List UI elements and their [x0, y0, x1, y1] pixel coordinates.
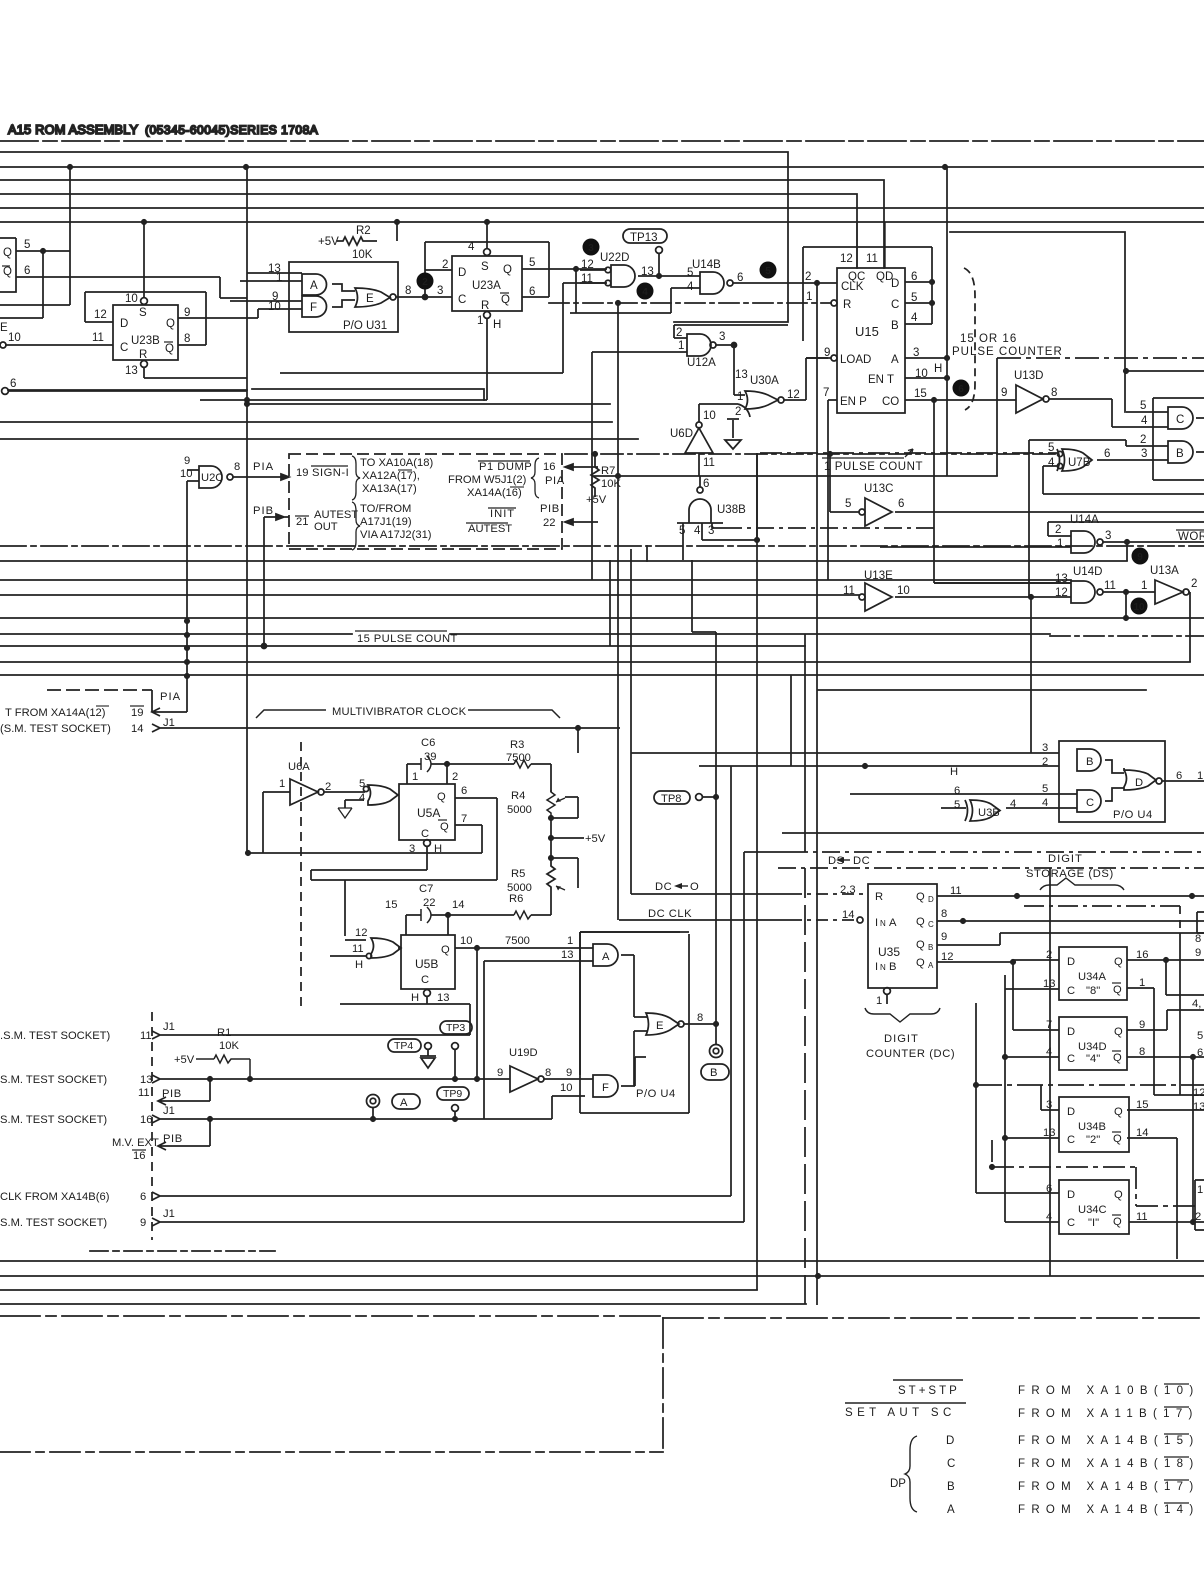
svg-text:5: 5	[529, 257, 535, 269]
svg-text:MULTIVIBRATOR CLOCK: MULTIVIBRATOR CLOCK	[332, 706, 467, 718]
svg-text:12: 12	[840, 253, 853, 265]
svg-text:D: D	[120, 318, 128, 330]
svg-text:P/O U31: P/O U31	[343, 320, 387, 332]
svg-text:13: 13	[561, 949, 573, 961]
svg-text:U14B: U14B	[692, 259, 721, 271]
svg-text:15 OR 16: 15 OR 16	[960, 333, 1017, 345]
svg-text:6: 6	[1104, 448, 1110, 460]
svg-text:TP3: TP3	[446, 1022, 465, 1034]
svg-text:13: 13	[1193, 1101, 1204, 1113]
svg-text:+5V: +5V	[586, 494, 607, 506]
svg-text:7500: 7500	[505, 935, 530, 947]
svg-text:4: 4	[1048, 457, 1055, 469]
svg-text:A: A	[891, 354, 899, 366]
svg-text:2: 2	[1042, 756, 1048, 768]
svg-text:22: 22	[423, 897, 435, 909]
svg-text:6: 6	[958, 384, 964, 395]
svg-text:C: C	[421, 974, 429, 986]
svg-text:C: C	[928, 920, 934, 929]
svg-text:DIGIT: DIGIT	[884, 1033, 919, 1045]
svg-text:12: 12	[355, 927, 367, 939]
svg-text:9: 9	[941, 931, 947, 943]
svg-text:COUNTER (DC): COUNTER (DC)	[866, 1048, 955, 1060]
svg-text:U23B: U23B	[131, 335, 160, 347]
svg-text:9: 9	[1001, 387, 1007, 399]
svg-text:12: 12	[1055, 587, 1068, 599]
svg-text:Q: Q	[916, 957, 925, 969]
svg-text:1: 1	[1141, 580, 1147, 592]
svg-text:TP13: TP13	[630, 232, 658, 244]
svg-text:7: 7	[1046, 1019, 1052, 1031]
svg-text:B: B	[947, 1481, 955, 1493]
svg-text:N: N	[880, 919, 886, 928]
svg-text:"4": "4"	[1086, 1053, 1100, 1065]
svg-text:EN T: EN T	[868, 374, 894, 386]
svg-text:Q: Q	[501, 294, 510, 306]
svg-text:Q: Q	[440, 821, 449, 833]
svg-text:U34A: U34A	[1078, 971, 1107, 983]
svg-text:19: 19	[296, 467, 308, 479]
svg-text:11: 11	[866, 253, 878, 265]
svg-text:4: 4	[1046, 1211, 1052, 1223]
svg-text:10K: 10K	[352, 249, 373, 261]
svg-text:21: 21	[296, 516, 308, 528]
svg-text:SET AUT SC: SET AUT SC	[845, 1407, 956, 1419]
svg-text:8: 8	[941, 908, 947, 920]
svg-text:U3B: U3B	[978, 807, 1000, 819]
svg-text:XA13A(17): XA13A(17)	[362, 483, 417, 495]
svg-text:U22D: U22D	[600, 252, 629, 264]
svg-text:7: 7	[823, 387, 829, 399]
svg-text:1: 1	[412, 771, 418, 783]
svg-text:TP8: TP8	[661, 793, 682, 805]
svg-text:Q: Q	[1114, 1026, 1123, 1038]
svg-text:2: 2	[442, 259, 448, 271]
svg-text:A: A	[400, 1097, 408, 1109]
svg-text:F: F	[310, 302, 317, 314]
svg-text:11: 11	[92, 332, 104, 344]
svg-text:J1: J1	[163, 717, 175, 729]
svg-text:Q: Q	[916, 916, 925, 928]
svg-text:3: 3	[1042, 742, 1048, 754]
svg-text:R: R	[843, 299, 851, 311]
svg-text:U34D: U34D	[1078, 1041, 1107, 1053]
svg-text:A: A	[310, 280, 318, 292]
svg-text:"8": "8"	[1086, 985, 1100, 997]
svg-text:H: H	[950, 766, 958, 778]
svg-text:U35: U35	[878, 945, 900, 959]
svg-text:13: 13	[1043, 978, 1055, 990]
svg-text:C7: C7	[419, 883, 433, 895]
svg-text:4: 4	[694, 525, 701, 537]
svg-text:6: 6	[461, 785, 467, 797]
svg-text:3: 3	[1046, 1099, 1052, 1111]
svg-text:1: 1	[737, 391, 743, 403]
svg-text:2: 2	[452, 771, 458, 783]
svg-text:U14A: U14A	[1070, 514, 1099, 526]
svg-text:1: 1	[876, 995, 882, 1007]
svg-text:B: B	[889, 961, 896, 973]
svg-text:1: 1	[678, 340, 684, 352]
svg-text:4: 4	[1042, 797, 1048, 809]
svg-text:16: 16	[140, 1114, 152, 1126]
svg-text:10: 10	[1133, 602, 1145, 613]
svg-text:5: 5	[765, 266, 771, 277]
svg-text:10: 10	[560, 1082, 572, 1094]
svg-text:P/O U4: P/O U4	[1113, 809, 1153, 821]
svg-text:12: 12	[94, 309, 107, 321]
svg-text:1: 1	[279, 778, 285, 790]
svg-text:8: 8	[184, 333, 190, 345]
svg-text:B: B	[1086, 756, 1093, 768]
svg-text:F: F	[602, 1082, 609, 1094]
svg-text:TP4: TP4	[394, 1040, 413, 1052]
svg-text:DP: DP	[890, 1478, 906, 1490]
svg-text:5: 5	[679, 525, 685, 537]
svg-text:Q: Q	[165, 343, 174, 355]
svg-text:(S.M. TEST SOCKET): (S.M. TEST SOCKET)	[0, 723, 111, 735]
svg-text:OUT: OUT	[314, 521, 338, 533]
svg-text:INIT: INIT	[490, 508, 515, 520]
svg-text:Q: Q	[441, 944, 450, 956]
svg-text:9: 9	[140, 1217, 146, 1229]
svg-text:2: 2	[1191, 578, 1197, 590]
svg-text:13: 13	[1055, 573, 1068, 585]
svg-text:D: D	[1135, 777, 1143, 789]
svg-text:U6D: U6D	[670, 428, 693, 440]
svg-text:WORD: WORD	[1178, 531, 1204, 543]
svg-text:A: A	[947, 1504, 955, 1516]
svg-text:10: 10	[268, 301, 281, 313]
svg-text:Q: Q	[3, 247, 12, 259]
svg-text:C: C	[458, 294, 466, 306]
svg-text:"I": "I"	[1088, 1217, 1099, 1229]
svg-text:(05345-60045)SERIES 1708A: (05345-60045)SERIES 1708A	[145, 123, 318, 137]
svg-text:10: 10	[915, 368, 928, 380]
svg-text:7500: 7500	[506, 752, 531, 764]
svg-text:6: 6	[1197, 1047, 1203, 1059]
svg-text:C: C	[1176, 414, 1184, 426]
svg-text:3: 3	[588, 243, 594, 254]
svg-text:PULSE COUNTER: PULSE COUNTER	[952, 346, 1063, 358]
svg-text:DC: DC	[655, 881, 672, 893]
svg-text:2: 2	[1140, 434, 1146, 446]
svg-text:TO/FROM: TO/FROM	[360, 503, 411, 515]
svg-text:E: E	[656, 1020, 663, 1032]
svg-text:PIA: PIA	[545, 475, 565, 487]
svg-text:15: 15	[914, 388, 927, 400]
svg-text:11: 11	[703, 457, 715, 469]
svg-text:16: 16	[543, 461, 555, 473]
svg-text:6: 6	[703, 478, 709, 490]
svg-text:D: D	[458, 267, 466, 279]
svg-text:H: H	[934, 363, 942, 375]
svg-text:C: C	[120, 342, 128, 354]
svg-text:U34C: U34C	[1078, 1204, 1107, 1216]
svg-text:13: 13	[140, 1074, 152, 1086]
svg-text:TP9: TP9	[443, 1088, 462, 1100]
svg-text:15: 15	[1136, 1099, 1148, 1111]
svg-text:5: 5	[954, 799, 960, 811]
svg-text:6: 6	[1046, 1183, 1052, 1195]
svg-text:S: S	[481, 261, 489, 273]
svg-text:STORAGE (DS): STORAGE (DS)	[1026, 868, 1114, 880]
svg-text:D: D	[1067, 1026, 1075, 1038]
svg-text:9: 9	[497, 1067, 503, 1079]
svg-text:R4: R4	[511, 790, 525, 802]
svg-text:6: 6	[529, 286, 535, 298]
svg-text:+5V: +5V	[318, 236, 339, 248]
svg-text:C: C	[421, 828, 429, 840]
svg-text:S.M. TEST SOCKET): S.M. TEST SOCKET)	[0, 1114, 107, 1126]
svg-text:3: 3	[1105, 530, 1111, 542]
svg-text:Q: Q	[437, 791, 446, 803]
svg-text:U12A: U12A	[687, 357, 716, 369]
svg-text:B: B	[1176, 448, 1184, 460]
svg-text:A: A	[602, 951, 610, 963]
svg-text:FROM XA14B(17): FROM XA14B(17)	[1018, 1481, 1200, 1493]
svg-text:15: 15	[385, 899, 397, 911]
svg-text:14: 14	[452, 899, 464, 911]
svg-text:C: C	[1067, 1217, 1075, 1229]
svg-text:10: 10	[8, 332, 21, 344]
svg-text:10: 10	[125, 293, 138, 305]
svg-text:R6: R6	[509, 893, 523, 905]
svg-text:R1: R1	[217, 1027, 231, 1039]
svg-text:D: D	[928, 895, 934, 904]
svg-text:14: 14	[131, 723, 143, 735]
svg-text:8: 8	[697, 1012, 703, 1024]
svg-text:U13C: U13C	[864, 483, 893, 495]
svg-text:12: 12	[941, 951, 953, 963]
svg-text:C: C	[1067, 1053, 1075, 1065]
svg-text:H: H	[434, 843, 442, 855]
svg-text:U30A: U30A	[750, 375, 779, 387]
svg-text:M.V. EXT: M.V. EXT	[112, 1137, 159, 1149]
svg-text:PIB: PIB	[163, 1133, 183, 1145]
svg-text:4: 4	[1141, 415, 1148, 427]
svg-text:10: 10	[460, 935, 472, 947]
svg-text:O: O	[690, 881, 699, 893]
svg-text:DC CLK: DC CLK	[648, 908, 692, 920]
svg-text:D: D	[1067, 956, 1075, 968]
svg-text:C: C	[1067, 985, 1075, 997]
svg-text:A: A	[889, 917, 897, 929]
svg-text:E: E	[0, 322, 8, 334]
svg-text:1: 1	[1057, 538, 1063, 550]
svg-text:10K: 10K	[219, 1040, 239, 1052]
svg-text:9: 9	[184, 307, 190, 319]
svg-text:A: A	[928, 961, 934, 970]
svg-text:.S.M. TEST SOCKET): .S.M. TEST SOCKET)	[0, 1030, 111, 1042]
svg-text:ST+STP: ST+STP	[898, 1385, 960, 1397]
svg-text:6: 6	[10, 378, 16, 390]
svg-text:A15 ROM ASSEMBLY: A15 ROM ASSEMBLY	[8, 122, 139, 137]
svg-text:3: 3	[1141, 448, 1147, 460]
svg-text:SIGN-I: SIGN-I	[312, 467, 349, 479]
svg-text:11: 11	[581, 273, 593, 285]
svg-text:22: 22	[543, 517, 555, 529]
svg-text:S: S	[139, 307, 147, 319]
svg-text:16: 16	[1136, 949, 1148, 961]
svg-text:AUTEST: AUTEST	[314, 509, 358, 521]
svg-text:6: 6	[911, 271, 917, 283]
svg-text:8: 8	[1195, 933, 1201, 945]
svg-text:R: R	[139, 349, 147, 361]
svg-text:2: 2	[805, 271, 811, 283]
svg-text:PIA: PIA	[160, 691, 181, 703]
svg-text:1: 1	[1197, 770, 1203, 782]
svg-text:U6A: U6A	[288, 761, 310, 773]
svg-text:D: D	[1067, 1106, 1075, 1118]
svg-text:6: 6	[737, 272, 743, 284]
svg-text:8: 8	[405, 285, 411, 297]
svg-text:6: 6	[898, 498, 904, 510]
svg-text:8: 8	[234, 461, 240, 473]
svg-text:11: 11	[140, 1030, 152, 1042]
svg-text:P1 DUMP: P1 DUMP	[479, 461, 532, 473]
svg-text:1: 1	[1139, 977, 1145, 989]
svg-text:5: 5	[24, 239, 30, 251]
svg-text:TO XA10A(18): TO XA10A(18)	[360, 457, 433, 469]
svg-text:8: 8	[1139, 1046, 1145, 1058]
svg-text:4,: 4,	[1192, 998, 1201, 1010]
svg-text:EN P: EN P	[840, 396, 867, 408]
svg-text:14: 14	[1136, 1127, 1148, 1139]
svg-text:4: 4	[359, 792, 365, 804]
svg-text:Q: Q	[1113, 1216, 1122, 1228]
svg-text:XA14A(16): XA14A(16)	[467, 487, 522, 499]
svg-text:6: 6	[1176, 770, 1182, 782]
svg-text:+5V: +5V	[174, 1054, 195, 1066]
svg-text:B: B	[928, 943, 933, 952]
svg-text:I: I	[875, 961, 878, 973]
svg-text:C: C	[947, 1458, 955, 1470]
svg-text:9: 9	[1139, 1019, 1145, 1031]
svg-text:9: 9	[566, 1067, 572, 1079]
svg-text:5: 5	[1140, 400, 1146, 412]
svg-text:U15: U15	[855, 324, 879, 339]
svg-text:R: R	[481, 300, 489, 312]
svg-text:XA12A(17),: XA12A(17),	[362, 470, 420, 482]
svg-text:13: 13	[641, 266, 654, 278]
svg-text:R: R	[875, 891, 883, 903]
svg-text:11: 11	[1104, 580, 1116, 592]
svg-text:U34B: U34B	[1078, 1121, 1106, 1133]
svg-text:Q: Q	[166, 318, 175, 330]
svg-text:14: 14	[842, 909, 854, 921]
svg-text:Q: Q	[1113, 984, 1122, 996]
svg-text:+5V: +5V	[585, 833, 606, 845]
svg-text:3: 3	[719, 331, 725, 343]
svg-text:D: D	[946, 1435, 954, 1447]
svg-text:D: D	[1067, 1189, 1075, 1201]
svg-text:1: 1	[276, 272, 282, 284]
svg-text:11: 11	[138, 1087, 150, 1099]
svg-text:PIB: PIB	[253, 505, 274, 517]
svg-text:10: 10	[703, 410, 716, 422]
svg-text:H: H	[355, 959, 363, 971]
svg-text:5: 5	[911, 292, 917, 304]
svg-text:2: 2	[735, 406, 741, 418]
svg-text:12: 12	[787, 389, 800, 401]
svg-text:4: 4	[911, 312, 918, 324]
svg-text:CO: CO	[882, 396, 899, 408]
svg-text:13: 13	[437, 992, 449, 1004]
svg-text:R7: R7	[601, 465, 615, 477]
svg-text:C: C	[1067, 1134, 1075, 1146]
svg-text:FROM XA11B(17): FROM XA11B(17)	[1018, 1408, 1199, 1420]
svg-text:"2": "2"	[1086, 1134, 1100, 1146]
svg-text:J1: J1	[163, 1021, 175, 1033]
svg-text:S.M. TEST SOCKET): S.M. TEST SOCKET)	[0, 1074, 107, 1086]
svg-text:U7B: U7B	[1068, 457, 1091, 469]
svg-text:Q: Q	[503, 264, 512, 276]
svg-text:5: 5	[687, 267, 693, 279]
svg-text:C6: C6	[421, 737, 435, 749]
svg-text:5: 5	[1048, 442, 1054, 454]
svg-text:FROM XA14B(14): FROM XA14B(14)	[1018, 1504, 1200, 1516]
svg-text:R5: R5	[511, 868, 525, 880]
svg-text:6: 6	[24, 265, 30, 277]
svg-text:11: 11	[352, 943, 364, 955]
svg-text:9: 9	[184, 455, 190, 467]
svg-text:R3: R3	[510, 739, 524, 751]
svg-text:1 PULSE COUNT: 1 PULSE COUNT	[824, 461, 923, 473]
svg-text:39: 39	[424, 751, 436, 763]
svg-text:CLK: CLK	[841, 281, 864, 293]
svg-text:8: 8	[1051, 387, 1057, 399]
svg-text:5000: 5000	[507, 804, 532, 816]
svg-text:15 PULSE COUNT: 15 PULSE COUNT	[357, 633, 458, 645]
svg-text:J1: J1	[163, 1208, 175, 1220]
svg-text:3: 3	[708, 525, 714, 537]
svg-text:FROM XA10B(10): FROM XA10B(10)	[1018, 1385, 1200, 1397]
svg-text:U38B: U38B	[717, 504, 746, 516]
svg-text:2: 2	[325, 781, 331, 793]
svg-text:19: 19	[131, 707, 143, 719]
svg-text:9: 9	[1137, 552, 1143, 563]
svg-text:AUTEST: AUTEST	[468, 523, 512, 535]
svg-text:2: 2	[1055, 524, 1061, 536]
svg-text:4: 4	[1010, 798, 1016, 810]
svg-text:LOAD: LOAD	[840, 354, 871, 366]
svg-text:12: 12	[581, 259, 594, 271]
svg-text:3: 3	[913, 347, 919, 359]
svg-text:PIB: PIB	[162, 1088, 182, 1100]
svg-text:2: 2	[1195, 1211, 1201, 1223]
svg-text:U2C: U2C	[201, 472, 223, 484]
svg-text:U13E: U13E	[864, 570, 893, 582]
svg-text:B: B	[710, 1067, 717, 1079]
svg-text:PIA: PIA	[253, 461, 274, 473]
svg-text:7: 7	[461, 813, 467, 825]
svg-text:FROM XA14B(15): FROM XA14B(15)	[1018, 1435, 1200, 1447]
svg-text:5: 5	[359, 778, 365, 790]
svg-text:E: E	[366, 293, 374, 305]
svg-text:Q: Q	[1113, 1133, 1122, 1145]
svg-text:11: 11	[843, 585, 855, 597]
svg-text:N: N	[880, 963, 886, 972]
svg-text:1: 1	[1197, 1184, 1203, 1196]
svg-text:Q: Q	[916, 891, 925, 903]
svg-text:13: 13	[735, 369, 748, 381]
svg-text:Q: Q	[1114, 1189, 1123, 1201]
svg-text:I: I	[875, 917, 878, 929]
svg-text:2: 2	[676, 327, 682, 339]
svg-text:3: 3	[437, 285, 443, 297]
svg-text:6: 6	[954, 785, 960, 797]
